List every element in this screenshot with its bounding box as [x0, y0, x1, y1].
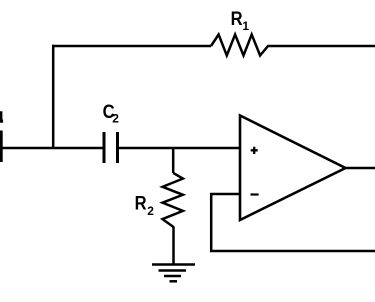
svg-text:1: 1 — [242, 19, 249, 33]
svg-text:R: R — [135, 192, 147, 214]
svg-text:2: 2 — [112, 112, 119, 126]
svg-text:2: 2 — [147, 204, 154, 218]
svg-text:R: R — [231, 8, 243, 30]
